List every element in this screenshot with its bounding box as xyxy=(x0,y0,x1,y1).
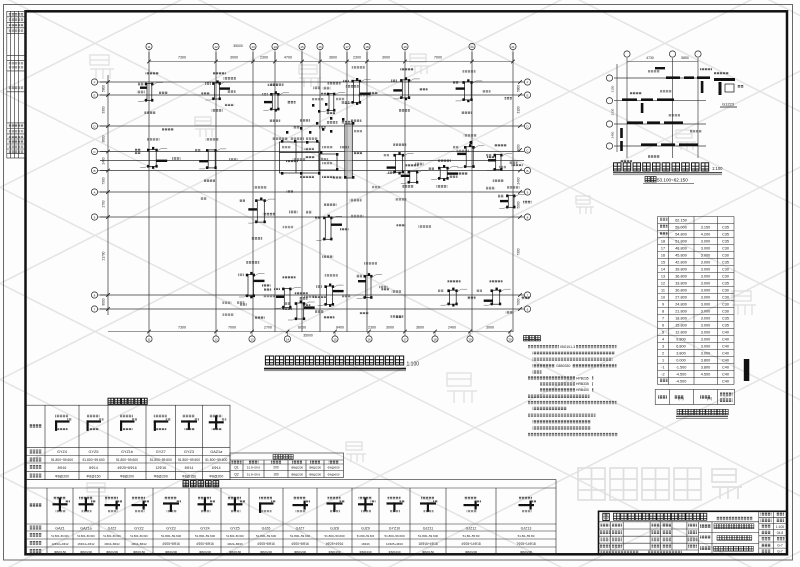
stair detail title xyxy=(614,163,709,171)
svg-text:8000: 8000 xyxy=(102,298,106,305)
svg-text:51.800~59.600: 51.800~59.600 xyxy=(357,534,375,538)
svg-text:13: 13 xyxy=(250,338,254,342)
svg-text:24.800: 24.800 xyxy=(675,303,687,307)
svg-text:2300: 2300 xyxy=(353,56,361,60)
svg-text:6Φ14: 6Φ14 xyxy=(212,466,221,470)
floor elevation table xyxy=(658,217,735,385)
main plan title xyxy=(265,356,403,365)
svg-text:2700: 2700 xyxy=(264,326,272,330)
svg-text:C30: C30 xyxy=(722,289,729,293)
svg-text:F: F xyxy=(94,80,96,84)
svg-text:C35: C35 xyxy=(722,261,729,265)
svg-text:51.800~59.600: 51.800~59.600 xyxy=(256,534,276,538)
svg-text:21.800: 21.800 xyxy=(675,310,687,314)
svg-text:Φ6@600: Φ6@600 xyxy=(327,472,339,476)
svg-text:3: 3 xyxy=(662,345,664,349)
wall detail cluster T3 xyxy=(263,91,289,111)
svg-text:16Φ14+4Φ12: 16Φ14+4Φ12 xyxy=(78,542,95,546)
svg-text:51.800~59.600: 51.800~59.600 xyxy=(384,534,404,538)
svg-text:11: 11 xyxy=(147,45,150,49)
svg-text:2700: 2700 xyxy=(102,200,106,207)
svg-text:E: E xyxy=(526,93,528,97)
svg-text:C35: C35 xyxy=(722,282,729,286)
wall detail cluster M6 xyxy=(140,147,167,169)
svg-text:C40: C40 xyxy=(722,331,729,335)
svg-text:G-7: G-7 xyxy=(777,543,783,547)
svg-text:51.800~59.600: 51.800~59.600 xyxy=(51,534,69,538)
title block company name xyxy=(614,513,707,520)
svg-text:3.000: 3.000 xyxy=(701,338,711,342)
svg-text:GJZ9: GJZ9 xyxy=(361,526,370,530)
svg-text:-1: -1 xyxy=(661,366,664,370)
svg-text:3.800: 3.800 xyxy=(701,359,711,363)
svg-text:20: 20 xyxy=(508,338,512,342)
svg-text:7Φ25+14Φ18: 7Φ25+14Φ18 xyxy=(516,542,536,546)
wall detail cluster L2 xyxy=(275,287,301,308)
svg-text:12Φ16+4Φ12: 12Φ16+4Φ12 xyxy=(52,542,69,546)
title block project cells xyxy=(700,524,711,528)
svg-text:C35: C35 xyxy=(722,233,729,237)
svg-text:51.800~59.600: 51.800~59.600 xyxy=(82,458,104,462)
svg-text:14: 14 xyxy=(273,45,277,49)
svg-text:21: 21 xyxy=(511,45,515,49)
svg-text:27.800: 27.800 xyxy=(675,296,687,300)
central blob field xyxy=(281,103,354,179)
svg-text:GJZ11: GJZ11 xyxy=(423,526,434,530)
svg-text:3.000: 3.000 xyxy=(701,352,711,356)
svg-text:35000: 35000 xyxy=(233,44,243,48)
top axis bubbles xyxy=(146,43,516,63)
svg-text:15: 15 xyxy=(661,261,665,265)
svg-text:54.800: 54.800 xyxy=(675,233,687,237)
svg-text:9.800: 9.800 xyxy=(676,338,686,342)
svg-text:53.100~62.150: 53.100~62.150 xyxy=(657,177,688,182)
svg-text:6.800: 6.800 xyxy=(676,345,686,349)
svg-text:51.800~59.600: 51.800~59.600 xyxy=(205,458,227,462)
svg-text:17: 17 xyxy=(403,338,407,342)
svg-text:7300: 7300 xyxy=(178,326,186,330)
svg-text:C30: C30 xyxy=(722,254,729,258)
svg-text:4Φ20+8Φ16: 4Φ20+8Φ16 xyxy=(291,542,309,546)
svg-text:8: 8 xyxy=(662,310,664,314)
svg-text:51.800~59.600: 51.800~59.600 xyxy=(77,534,95,538)
svg-text:C40: C40 xyxy=(722,380,729,384)
svg-text:6: 6 xyxy=(662,324,664,328)
svg-text:3.000: 3.000 xyxy=(701,247,711,251)
svg-text:36.800: 36.800 xyxy=(675,275,687,279)
svg-text:12: 12 xyxy=(214,338,218,342)
svg-text:GB50330: GB50330 xyxy=(556,364,570,368)
bottom dimension line xyxy=(108,331,513,333)
central room boxes xyxy=(280,142,338,173)
wall detail cluster M5 xyxy=(401,171,428,184)
svg-text:4.500: 4.500 xyxy=(701,373,711,377)
svg-text:18: 18 xyxy=(661,240,665,244)
svg-text:Φ8@200: Φ8@200 xyxy=(154,474,168,478)
stair detail left bubbles xyxy=(606,75,612,149)
svg-text:5800: 5800 xyxy=(517,85,521,92)
svg-text:39.800: 39.800 xyxy=(675,268,687,272)
wall detail cluster M10 xyxy=(487,154,512,171)
svg-text:GYZ4: GYZ4 xyxy=(57,450,67,454)
svg-text:15.800: 15.800 xyxy=(675,324,687,328)
svg-text:4Φ22+8Φ16: 4Φ22+8Φ16 xyxy=(227,542,243,546)
svg-text:Φ8@200: Φ8@200 xyxy=(80,550,92,554)
svg-text:3000: 3000 xyxy=(486,326,494,330)
svg-text:2300: 2300 xyxy=(260,56,268,60)
svg-text:Φ8@200: Φ8@200 xyxy=(291,466,303,470)
svg-text:05G101-3: 05G101-3 xyxy=(560,345,575,349)
svg-text:3.000: 3.000 xyxy=(701,275,711,279)
svg-text:7000: 7000 xyxy=(228,326,236,330)
svg-text:48.800: 48.800 xyxy=(675,247,687,251)
svg-text:35000: 35000 xyxy=(303,334,313,338)
svg-text:3300: 3300 xyxy=(102,106,106,113)
svg-text:Φ8@200: Φ8@200 xyxy=(120,474,134,478)
wall detail cluster M7 xyxy=(199,149,226,169)
floor table caption xyxy=(677,409,728,415)
svg-text:E: E xyxy=(93,93,95,97)
svg-text:7000: 7000 xyxy=(434,56,442,60)
svg-text:62.150: 62.150 xyxy=(675,219,687,223)
svg-text:16Φ16: 16Φ16 xyxy=(361,542,370,546)
wall detail cluster M9 xyxy=(316,215,342,241)
title block phone row xyxy=(601,551,639,554)
wall detail cluster M11 xyxy=(499,194,525,208)
svg-text:3.000: 3.000 xyxy=(701,296,711,300)
bottom axis bubbles xyxy=(146,330,513,342)
svg-text:2400: 2400 xyxy=(448,326,456,330)
svg-text:HRB400: HRB400 xyxy=(576,388,589,392)
svg-text:51.8~59.6: 51.8~59.6 xyxy=(247,472,261,476)
svg-text:19: 19 xyxy=(403,45,407,49)
svg-text:1:100: 1:100 xyxy=(407,362,420,368)
svg-text:-4.500: -4.500 xyxy=(676,373,687,377)
svg-text:10: 10 xyxy=(661,296,665,300)
svg-text:2400: 2400 xyxy=(517,177,521,184)
svg-text:3.000: 3.000 xyxy=(701,261,711,265)
svg-text:Φ8@150: Φ8@150 xyxy=(54,550,66,554)
left title strip xyxy=(7,11,26,158)
svg-text:Φ8@200: Φ8@200 xyxy=(106,550,118,554)
wall detail cluster L5a xyxy=(441,288,468,307)
wall detail cluster T7 xyxy=(320,93,345,112)
svg-text:GYZ3: GYZ3 xyxy=(184,450,194,454)
shear wall column table xyxy=(26,405,230,479)
svg-text:20: 20 xyxy=(470,45,474,49)
svg-text:Φ8@200: Φ8@200 xyxy=(465,550,477,554)
svg-text:Φ8@150: Φ8@150 xyxy=(422,550,434,554)
svg-text:3600: 3600 xyxy=(329,56,337,60)
stair detail top bubbles xyxy=(624,51,701,57)
svg-text:45.800: 45.800 xyxy=(675,254,687,258)
wall body table xyxy=(230,453,344,478)
svg-text:G-7: G-7 xyxy=(777,550,783,554)
svg-text:0.000: 0.000 xyxy=(676,359,686,363)
svg-text:04.8: 04.8 xyxy=(777,531,784,535)
wall detail cluster L3 xyxy=(318,284,344,307)
svg-text:3.800: 3.800 xyxy=(676,352,686,356)
svg-text:1:100: 1:100 xyxy=(776,525,784,529)
svg-text:4.200: 4.200 xyxy=(701,233,711,237)
svg-text:Φ8@200: Φ8@200 xyxy=(55,474,69,478)
main plan vertical grid lines xyxy=(108,52,513,332)
svg-text:GJZ8: GJZ8 xyxy=(330,526,339,530)
svg-text:GAZ1: GAZ1 xyxy=(55,526,64,530)
svg-text:4Φ25+8Φ16: 4Φ25+8Φ16 xyxy=(162,542,180,546)
svg-text:30.800: 30.800 xyxy=(675,289,687,293)
svg-text:21700: 21700 xyxy=(102,251,106,260)
svg-text:8400: 8400 xyxy=(336,326,344,330)
wall detail cluster L4 xyxy=(357,273,382,299)
svg-text:17: 17 xyxy=(661,247,665,251)
svg-text:5: 5 xyxy=(662,331,664,335)
svg-text:3.000: 3.000 xyxy=(701,303,711,307)
right axis bubbles and dims xyxy=(518,79,530,312)
svg-text:17: 17 xyxy=(345,45,349,49)
svg-text:4Φ25+14Φ18: 4Φ25+14Φ18 xyxy=(461,542,481,546)
svg-text:3.000: 3.000 xyxy=(701,240,711,244)
svg-text:2300: 2300 xyxy=(368,326,376,330)
svg-text:1:100: 1:100 xyxy=(712,166,723,171)
svg-text:C35: C35 xyxy=(722,240,729,244)
notes block xyxy=(524,336,541,341)
svg-text:2450: 2450 xyxy=(611,131,615,138)
wall detail cluster L1 xyxy=(239,272,265,298)
svg-text:51.800~59.600: 51.800~59.600 xyxy=(150,458,172,462)
svg-text:3600: 3600 xyxy=(416,326,424,330)
svg-text:4Φ16+8Φ12: 4Φ16+8Φ12 xyxy=(104,542,120,546)
svg-text:2: 2 xyxy=(662,352,664,356)
watermark glyphs xyxy=(90,55,114,79)
svg-text:B: B xyxy=(93,169,95,173)
svg-text:3.000: 3.000 xyxy=(701,345,711,349)
svg-text:3.150: 3.150 xyxy=(701,226,711,230)
svg-text:1: 1 xyxy=(662,359,664,363)
wall detail cluster T6 xyxy=(456,79,483,102)
svg-text:7300: 7300 xyxy=(102,177,106,184)
svg-text:16: 16 xyxy=(318,45,322,49)
svg-text:51.800~59.600: 51.800~59.600 xyxy=(130,534,148,538)
svg-text:C40: C40 xyxy=(722,366,729,370)
svg-text:C40: C40 xyxy=(722,345,729,349)
svg-text:Q1: Q1 xyxy=(234,466,239,470)
svg-text:Φ8@200: Φ8@200 xyxy=(199,550,211,554)
svg-text:18: 18 xyxy=(433,338,437,342)
svg-text:C40: C40 xyxy=(722,359,729,363)
svg-text:160: 160 xyxy=(273,472,279,476)
svg-text:Φ8@150: Φ8@150 xyxy=(86,474,100,478)
lift shaft gray band xyxy=(345,124,353,178)
svg-text:C40: C40 xyxy=(722,338,729,342)
title block right header cells xyxy=(761,513,772,516)
boundary column table title xyxy=(183,481,219,487)
svg-text:7300: 7300 xyxy=(178,56,186,60)
svg-text:14: 14 xyxy=(286,338,290,342)
svg-text:18Φ16+4Φ18: 18Φ16+4Φ18 xyxy=(418,542,438,546)
svg-text:51.800~59.600: 51.800~59.600 xyxy=(51,458,73,462)
svg-text:3.800: 3.800 xyxy=(701,366,711,370)
svg-text:51.800~59.600: 51.800~59.600 xyxy=(161,534,181,538)
svg-text:Φ8@200: Φ8@200 xyxy=(359,550,371,554)
svg-text:3.000: 3.000 xyxy=(701,331,711,335)
svg-text:F: F xyxy=(527,80,529,84)
svg-text:11: 11 xyxy=(661,289,665,293)
central tiny annotations xyxy=(272,138,288,141)
svg-text:Φ8@200: Φ8@200 xyxy=(209,474,223,478)
svg-text:C30: C30 xyxy=(722,310,729,314)
shear wall column table title xyxy=(108,398,147,404)
wall detail cluster M3 xyxy=(387,152,414,174)
svg-text:C40: C40 xyxy=(722,352,729,356)
svg-text:51.800~59.600: 51.800~59.600 xyxy=(226,534,244,538)
svg-text:15: 15 xyxy=(300,45,304,49)
svg-text:G1223: G1223 xyxy=(722,102,735,107)
svg-text:4Φ25+8Φ16: 4Φ25+8Φ16 xyxy=(257,542,275,546)
scattered plan annotations xyxy=(499,166,506,169)
svg-text:51.8~59.6: 51.8~59.6 xyxy=(247,466,261,470)
svg-text:2330: 2330 xyxy=(611,108,615,115)
svg-text:Φ8@200: Φ8@200 xyxy=(165,550,177,554)
svg-text:12Φ25+4Φ16: 12Φ25+4Φ16 xyxy=(386,542,403,546)
detail G1223 xyxy=(714,78,735,95)
svg-text:4700: 4700 xyxy=(284,56,292,60)
svg-text:8Φ14: 8Φ14 xyxy=(89,466,98,470)
svg-text:4Φ25+8Φ16: 4Φ25+8Φ16 xyxy=(117,466,136,470)
svg-text:Φ8@200: Φ8@200 xyxy=(291,472,303,476)
svg-text:12Φ16: 12Φ16 xyxy=(155,466,166,470)
svg-text:7: 7 xyxy=(662,317,664,321)
svg-text:3000: 3000 xyxy=(382,56,390,60)
stair detail walls xyxy=(620,67,710,151)
svg-text:8Φ16: 8Φ16 xyxy=(58,466,67,470)
wall detail cluster T4 xyxy=(345,78,371,105)
svg-text:HPB235: HPB235 xyxy=(576,376,589,380)
svg-text:13: 13 xyxy=(251,45,255,49)
svg-text:51.800~59.600: 51.800~59.600 xyxy=(116,458,138,462)
left axis bubbles and dims xyxy=(91,79,109,312)
svg-text:GYZ2: GYZ2 xyxy=(134,526,143,530)
svg-text:18.800: 18.800 xyxy=(675,317,687,321)
svg-text:C40: C40 xyxy=(722,373,729,377)
svg-text:Φ8@200: Φ8@200 xyxy=(260,550,272,554)
svg-text:GJZ13: GJZ13 xyxy=(521,526,532,530)
stair detail dimension line xyxy=(627,61,698,63)
svg-text:A: A xyxy=(93,190,95,194)
svg-text:5800: 5800 xyxy=(102,85,106,92)
svg-text:51.80~55.80: 51.80~55.80 xyxy=(463,534,480,538)
svg-text:6000: 6000 xyxy=(298,326,306,330)
svg-text:51.800~59.600: 51.800~59.600 xyxy=(324,534,344,538)
svg-text:HRB335: HRB335 xyxy=(576,382,589,386)
svg-text:C30: C30 xyxy=(722,303,729,307)
svg-text:2400: 2400 xyxy=(102,157,106,164)
svg-text:C35: C35 xyxy=(722,317,729,321)
svg-text:Φ8@200: Φ8@200 xyxy=(309,472,321,476)
svg-text:GYZ4: GYZ4 xyxy=(200,526,209,530)
floor table header row xyxy=(655,390,735,405)
svg-text:12: 12 xyxy=(661,282,665,286)
svg-text:GAZ1a: GAZ1a xyxy=(80,526,91,530)
svg-text:B: B xyxy=(526,169,528,173)
svg-text:3.000: 3.000 xyxy=(701,324,711,328)
svg-text:GYZ5: GYZ5 xyxy=(230,526,239,530)
svg-text:C30: C30 xyxy=(722,296,729,300)
svg-text:GYZ7: GYZ7 xyxy=(156,450,166,454)
svg-text:3000: 3000 xyxy=(230,56,238,60)
wall detail cluster M4 xyxy=(457,144,484,168)
svg-text:3.000: 3.000 xyxy=(701,289,711,293)
svg-text:C30: C30 xyxy=(722,247,729,251)
watermark large text xyxy=(578,468,701,500)
svg-text:Φ8@200: Φ8@200 xyxy=(309,466,321,470)
svg-text:3.000: 3.000 xyxy=(701,317,711,321)
svg-text:GJZ2: GJZ2 xyxy=(108,526,117,530)
svg-text:-1.500: -1.500 xyxy=(676,366,687,370)
svg-text:51.800~59.600: 51.800~59.600 xyxy=(103,534,121,538)
svg-text:5850: 5850 xyxy=(681,56,689,60)
svg-text:GJZ7: GJZ7 xyxy=(296,526,305,530)
stair detail subtitle xyxy=(645,177,656,183)
title block signature cells xyxy=(601,523,610,527)
svg-text:Φ8@150: Φ8@150 xyxy=(133,550,145,554)
wall detail cluster T5 xyxy=(393,77,419,100)
svg-text:3.000: 3.000 xyxy=(701,310,711,314)
svg-text:4: 4 xyxy=(662,338,664,342)
svg-text:51.800: 51.800 xyxy=(675,240,687,244)
svg-text:4Φ25+4Φ16: 4Φ25+4Φ16 xyxy=(326,542,344,546)
svg-text:Φ8@150: Φ8@150 xyxy=(182,474,196,478)
svg-text:Φ8@150: Φ8@150 xyxy=(328,550,340,554)
svg-text:5000: 5000 xyxy=(517,201,521,208)
svg-text:13: 13 xyxy=(661,275,665,279)
wall detail cluster M8 xyxy=(248,198,275,224)
svg-text:4Φ16+8Φ12: 4Φ16+8Φ12 xyxy=(131,542,147,546)
svg-text:51.80~55.80: 51.80~55.80 xyxy=(518,534,535,538)
svg-text:GYZ1b: GYZ1b xyxy=(121,450,133,454)
svg-text:33.800: 33.800 xyxy=(675,282,687,286)
top dimension line xyxy=(149,61,513,63)
svg-text:16: 16 xyxy=(661,254,665,258)
svg-text:GJZ12: GJZ12 xyxy=(466,526,477,530)
svg-text:16: 16 xyxy=(367,338,371,342)
svg-text:C35: C35 xyxy=(722,324,729,328)
svg-text:51.800~59.600: 51.800~59.600 xyxy=(418,534,438,538)
main plan horizontal grid lines xyxy=(100,82,524,309)
title block logo xyxy=(603,513,610,520)
wall detail cluster L6 xyxy=(288,300,315,320)
svg-text:4600: 4600 xyxy=(517,144,521,151)
svg-text:3600: 3600 xyxy=(102,135,106,142)
svg-text:Φ8@200: Φ8@200 xyxy=(294,550,306,554)
title block scale cells xyxy=(761,525,771,529)
svg-text:GYZ5: GYZ5 xyxy=(89,450,99,454)
svg-text:3.000: 3.000 xyxy=(701,254,711,258)
svg-text:3000: 3000 xyxy=(386,326,394,330)
svg-text:18: 18 xyxy=(365,45,369,49)
svg-text:C35: C35 xyxy=(722,226,729,230)
svg-text:12.800: 12.800 xyxy=(675,331,687,335)
boundary column table xyxy=(26,480,556,555)
svg-text:51.800~59.600: 51.800~59.600 xyxy=(290,534,310,538)
svg-text:Φ8@200: Φ8@200 xyxy=(520,550,532,554)
svg-text:8Φ14: 8Φ14 xyxy=(185,466,194,470)
svg-text:GYZ10: GYZ10 xyxy=(389,526,400,530)
floor table black bar xyxy=(744,359,750,381)
svg-text:15: 15 xyxy=(333,338,337,342)
svg-text:59.000: 59.000 xyxy=(675,226,687,230)
svg-text:Φ8@150: Φ8@150 xyxy=(229,550,241,554)
